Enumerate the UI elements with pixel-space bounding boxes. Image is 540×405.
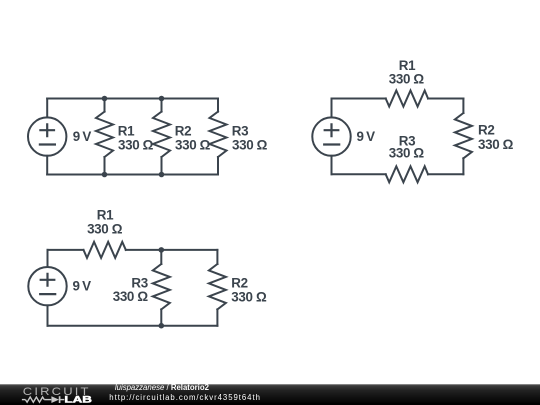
svg-text:R2: R2 bbox=[231, 276, 247, 291]
svg-text:R1: R1 bbox=[118, 124, 135, 139]
wire: circuit 3 bottom rail bbox=[48, 325, 218, 327]
resistor R1 (circuit 3) bbox=[84, 242, 126, 258]
svg-text:luispazzanese / Relatorio2: luispazzanese / Relatorio2 bbox=[115, 383, 210, 392]
resistor R2 (circuit 2) bbox=[455, 99, 472, 175]
svg-text:9 V: 9 V bbox=[73, 129, 92, 144]
resistor R1 (circuit 2) bbox=[386, 91, 428, 107]
svg-text:330 Ω: 330 Ω bbox=[232, 137, 268, 152]
voltage source V2 bbox=[312, 99, 350, 175]
svg-text:330 Ω: 330 Ω bbox=[113, 289, 149, 304]
svg-text:330 Ω: 330 Ω bbox=[478, 137, 514, 152]
wire: circuit 2 bottom rail right bbox=[428, 173, 463, 175]
svg-text:330 Ω: 330 Ω bbox=[118, 137, 154, 152]
wire: circuit 3 top rail left bbox=[48, 249, 84, 251]
resistor R1 (circuit 1) bbox=[96, 99, 113, 175]
footer bar bbox=[0, 384, 540, 405]
svg-text:LAB: LAB bbox=[64, 395, 91, 405]
resistor R2 (circuit 3) bbox=[209, 250, 226, 326]
svg-text:9 V: 9 V bbox=[357, 129, 376, 144]
svg-text:330 Ω: 330 Ω bbox=[231, 289, 267, 304]
resistor R3 (circuit 1) bbox=[210, 99, 227, 175]
svg-text:330 Ω: 330 Ω bbox=[175, 137, 211, 152]
resistor R3 (circuit 3) bbox=[153, 250, 170, 326]
junction node (circuit 3, R3 bottom) bbox=[159, 323, 165, 329]
junction node (circuit 1, R1 top) bbox=[102, 96, 108, 102]
svg-text:330 Ω: 330 Ω bbox=[389, 146, 425, 161]
CircuitLab logo: resistor symbol bbox=[22, 397, 51, 402]
voltage source V3 bbox=[28, 250, 66, 326]
svg-text:330 Ω: 330 Ω bbox=[87, 221, 123, 236]
wire: circuit 1 top rail bbox=[47, 98, 218, 100]
CircuitLab logo: diode symbol bbox=[51, 396, 64, 403]
wire: circuit 2 top rail right bbox=[428, 98, 463, 100]
junction node (circuit 3, R3 top) bbox=[159, 247, 165, 253]
svg-text:http://circuitlab.com/ckvr4359: http://circuitlab.com/ckvr4359t64th bbox=[109, 393, 261, 402]
svg-text:330 Ω: 330 Ω bbox=[389, 71, 425, 86]
junction node (circuit 1, R1 bottom) bbox=[102, 172, 108, 178]
svg-text:R3: R3 bbox=[232, 124, 248, 139]
wire: circuit 2 top rail left bbox=[332, 98, 386, 100]
resistor R2 (circuit 1) bbox=[153, 99, 170, 175]
svg-text:R2: R2 bbox=[478, 122, 494, 137]
wire: circuit 2 bottom rail left bbox=[332, 173, 386, 175]
resistor R3 (circuit 2) bbox=[386, 166, 428, 182]
voltage source V1 bbox=[28, 99, 66, 175]
svg-text:R1: R1 bbox=[97, 208, 114, 223]
wire: circuit 1 bottom rail bbox=[47, 174, 218, 176]
svg-text:R2: R2 bbox=[175, 124, 191, 139]
junction node (circuit 1, R2 top) bbox=[159, 96, 165, 102]
junction node (circuit 1, R2 bottom) bbox=[159, 172, 165, 178]
wire: circuit 3 top rail right bbox=[126, 249, 218, 251]
svg-text:9 V: 9 V bbox=[73, 279, 92, 294]
